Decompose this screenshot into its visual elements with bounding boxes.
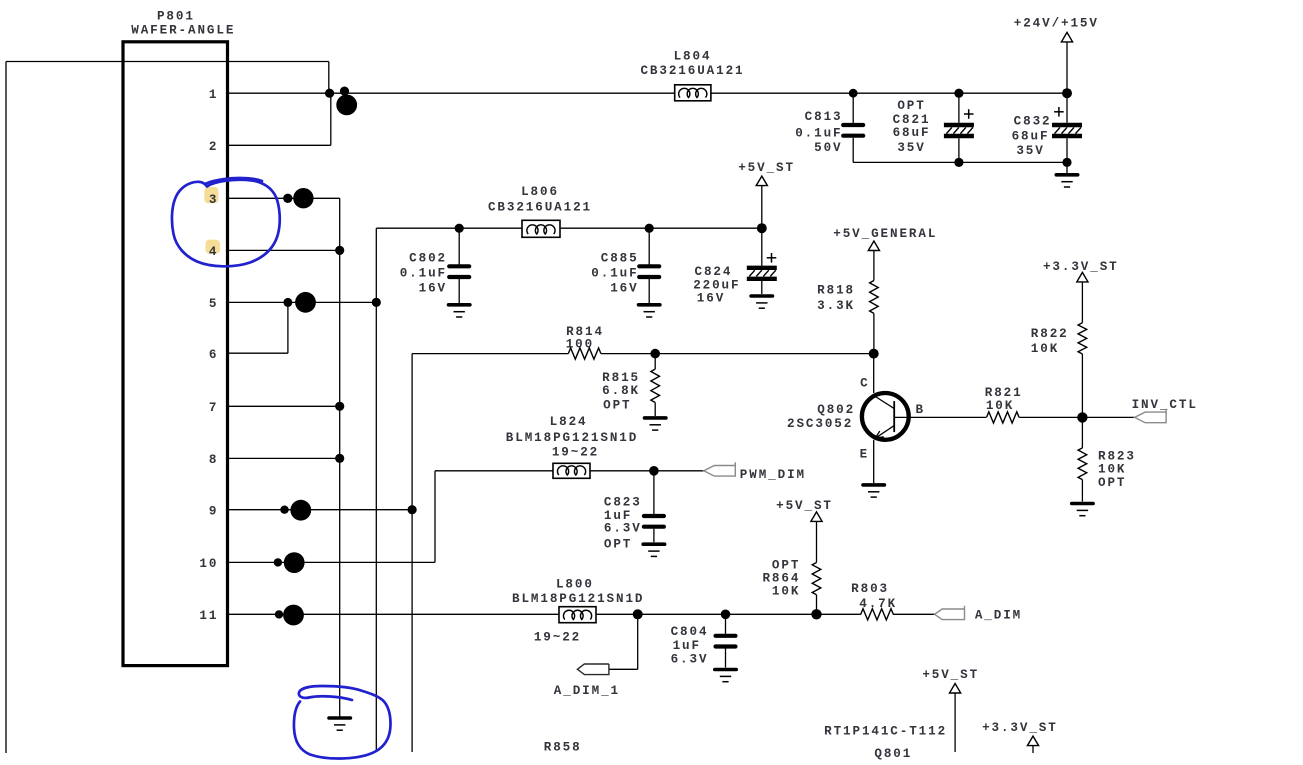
wire top rail from left edge <box>6 61 329 63</box>
svg-text:68uF: 68uF <box>893 126 931 140</box>
ground below C823 <box>643 542 664 546</box>
wire pin 8 stub <box>228 457 340 459</box>
svg-text:R815: R815 <box>602 371 640 385</box>
junction INV_CTL node <box>1077 412 1087 422</box>
junction C802 <box>455 224 464 233</box>
svg-text:R822: R822 <box>1031 327 1069 341</box>
wire pin 6 up to pin 5 <box>287 302 289 353</box>
svg-text:OPT: OPT <box>604 538 632 552</box>
junction C832 bottom <box>1062 158 1071 167</box>
wire pin 11 to L800 <box>228 613 560 615</box>
capacitor C823 <box>653 471 655 514</box>
svg-text:R823: R823 <box>1098 450 1136 464</box>
svg-text:8: 8 <box>209 453 218 467</box>
junction C804 <box>721 610 731 620</box>
connector P801 body <box>123 42 228 666</box>
annotation blob pin 5 <box>295 292 316 313</box>
resistor R815 <box>654 354 656 370</box>
svg-text:+3.3V_ST: +3.3V_ST <box>982 721 1058 735</box>
svg-text:Q802: Q802 <box>817 403 855 417</box>
wire pin 6 stub <box>228 352 288 354</box>
junction C885 <box>645 224 654 233</box>
svg-text:9: 9 <box>209 504 218 518</box>
svg-text:E: E <box>860 448 869 462</box>
svg-text:16V: 16V <box>610 282 638 296</box>
wire pin 7 stub <box>228 405 340 407</box>
wire R821 to junction <box>1019 416 1134 418</box>
svg-text:R818: R818 <box>817 284 855 298</box>
svg-text:OPT: OPT <box>1098 476 1126 490</box>
net flag PWM_DIM <box>704 462 736 476</box>
wire pin 9 stub <box>228 509 413 511</box>
resistor R814 <box>568 348 601 359</box>
svg-text:11: 11 <box>199 609 218 623</box>
svg-text:R858: R858 <box>544 741 582 755</box>
junction pin 1 <box>325 89 334 98</box>
ground below Q802 emitter <box>863 483 884 487</box>
resistor R864 <box>816 522 818 563</box>
svg-text:4: 4 <box>209 245 218 259</box>
svg-text:B: B <box>915 403 924 417</box>
ground below C804 <box>715 668 736 672</box>
svg-text:C804: C804 <box>671 625 709 639</box>
transistor Q802 <box>862 393 909 440</box>
ground below R815 <box>645 416 666 420</box>
wire pin 5 stub <box>228 301 377 303</box>
junction C813 top <box>849 89 858 98</box>
wire pin 10 up to L824 row <box>434 471 436 563</box>
resistor R803 <box>861 609 894 620</box>
inductor L824 <box>553 463 590 478</box>
inductor L800 <box>559 607 596 623</box>
svg-text:PWM_DIM: PWM_DIM <box>740 468 806 482</box>
resistor R823 <box>1081 417 1083 448</box>
wire L800 to R803 <box>596 613 861 615</box>
resistor R821 <box>987 412 1020 423</box>
wire base to R821 <box>894 416 986 418</box>
svg-text:+5V_ST: +5V_ST <box>922 668 979 682</box>
svg-text:C821: C821 <box>893 113 931 127</box>
svg-text:6.3V: 6.3V <box>671 652 709 666</box>
net flag A_DIM_1 <box>577 664 609 675</box>
junction collector rail <box>869 349 879 359</box>
resistor R818 <box>873 251 875 281</box>
svg-text:+5V_ST: +5V_ST <box>776 499 833 513</box>
junction C821 top <box>954 89 963 98</box>
svg-text:6: 6 <box>209 348 218 362</box>
svg-text:0.1uF: 0.1uF <box>400 267 447 281</box>
annotation dot pin 9 <box>280 506 288 514</box>
annotation dot pin 3 <box>283 194 292 203</box>
ground below C802 <box>449 303 470 307</box>
svg-text:220uF: 220uF <box>693 279 740 293</box>
svg-text:2SC3052: 2SC3052 <box>787 417 853 431</box>
wire L824 to PWM_DIM <box>590 470 704 472</box>
svg-text:CB3216UA121: CB3216UA121 <box>640 64 744 78</box>
highlight pin 3 <box>204 187 218 203</box>
wire +24V symbol down <box>1066 42 1068 93</box>
annotation dot pin 11 <box>275 610 283 618</box>
svg-text:10K: 10K <box>986 399 1014 413</box>
svg-text:L806: L806 <box>521 185 559 199</box>
annotation dot pin 5 <box>283 298 292 307</box>
svg-text:6.3V: 6.3V <box>604 522 642 536</box>
svg-text:C823: C823 <box>604 496 642 510</box>
wire pin 2 stub <box>228 144 331 146</box>
annotation dot pin 10 <box>274 558 282 566</box>
svg-text:L800: L800 <box>556 578 594 592</box>
capacitor C804 <box>725 614 727 634</box>
wire R814 left <box>412 353 568 355</box>
svg-text:19~22: 19~22 <box>552 446 599 460</box>
svg-text:R821: R821 <box>985 386 1023 400</box>
junction pin 4 <box>228 249 340 251</box>
junction pin 9 <box>408 505 417 514</box>
junction pin 8 <box>335 454 344 463</box>
svg-text:35V: 35V <box>1016 144 1044 158</box>
svg-text:10K: 10K <box>1031 342 1059 356</box>
svg-text:C824: C824 <box>695 265 733 279</box>
junction C821 bottom <box>954 158 963 167</box>
svg-text:R864: R864 <box>762 572 800 586</box>
wire L806 rail left <box>376 227 522 229</box>
wire +5V_ST net vertical from L806 rail down <box>375 228 377 752</box>
svg-text:19~22: 19~22 <box>534 630 581 644</box>
svg-text:CB3216UA121: CB3216UA121 <box>488 201 592 215</box>
ground below C832 <box>1056 173 1077 177</box>
wire pin10 row to L824 <box>435 470 553 472</box>
svg-text:L804: L804 <box>674 49 712 63</box>
capacitor C813 <box>852 93 854 123</box>
svg-text:OPT: OPT <box>772 558 800 572</box>
annotation blob pin 9 <box>290 500 311 521</box>
wire ground net vertical (pins 3,4,7,8) <box>339 198 341 716</box>
svg-text:6.8K: 6.8K <box>602 384 640 398</box>
annotation blob pin 10 <box>284 552 305 573</box>
junction C824 / +5V_ST <box>757 223 767 233</box>
capacitor C821 (polarized) <box>964 113 974 115</box>
svg-text:+5V_GENERAL: +5V_GENERAL <box>833 227 937 241</box>
wire rail down to pin 1 <box>328 62 330 94</box>
wire R803 to A_DIM <box>893 613 935 615</box>
svg-text:C813: C813 <box>805 110 843 124</box>
svg-text:BLM18PG121SN1D: BLM18PG121SN1D <box>512 592 644 606</box>
ground below C885 <box>639 303 660 307</box>
svg-text:35V: 35V <box>897 141 925 155</box>
svg-text:BLM18PG121SN1D: BLM18PG121SN1D <box>506 431 638 445</box>
svg-text:1: 1 <box>209 88 218 102</box>
svg-text:C832: C832 <box>1014 115 1052 129</box>
svg-text:R803: R803 <box>851 582 889 596</box>
svg-text:+5V_ST: +5V_ST <box>738 161 795 175</box>
wire pin 3 stub <box>228 197 340 199</box>
inductor L804 <box>675 85 711 101</box>
svg-text:L824: L824 <box>550 415 588 429</box>
wire caps bottom rail <box>853 161 1067 163</box>
junction R815 <box>650 349 660 359</box>
capacitor C824 (polarized) <box>767 257 777 259</box>
capacitor C832 (polarized) <box>1054 111 1064 113</box>
annotation blue circle around ground <box>294 686 391 759</box>
ground below R823 <box>1072 502 1093 506</box>
annotation blob pin 1 <box>336 95 357 116</box>
svg-text:1uF: 1uF <box>673 639 701 653</box>
svg-text:C885: C885 <box>601 252 639 266</box>
svg-text:C: C <box>860 377 869 391</box>
ground below C824 <box>751 294 772 298</box>
svg-text:16V: 16V <box>419 282 447 296</box>
wire to ground below C832 <box>1066 162 1068 173</box>
svg-text:WAFER-ANGLE: WAFER-ANGLE <box>131 23 235 37</box>
wire pin 9 net vertical (to R814 and below) <box>411 354 413 752</box>
svg-text:+24V/+15V: +24V/+15V <box>1014 17 1099 31</box>
svg-text:16V: 16V <box>697 292 725 306</box>
svg-text:50V: 50V <box>814 141 842 155</box>
svg-text:10K: 10K <box>1098 463 1126 477</box>
wire L806 rail right <box>560 227 762 229</box>
svg-text:68uF: 68uF <box>1012 130 1050 144</box>
wire pin 1 to L804 <box>228 92 676 94</box>
ground circled (pins 3,4,7,8 net) <box>329 716 350 720</box>
svg-text:10: 10 <box>199 557 218 571</box>
junction pin 7 <box>335 402 344 411</box>
junction pin 5 <box>372 298 381 307</box>
junction C823 <box>649 466 659 476</box>
svg-text:OPT: OPT <box>897 99 925 113</box>
svg-text:3.3K: 3.3K <box>817 299 855 313</box>
wire pin 2 up to pin 1 <box>330 93 332 145</box>
svg-text:10K: 10K <box>772 585 800 599</box>
resistor R822 <box>1081 282 1083 323</box>
junction A_DIM_1 branch <box>633 609 643 619</box>
wire A_DIM_1 branch <box>637 614 639 669</box>
capacitor C885 <box>648 228 650 264</box>
wire R814 right <box>601 353 874 355</box>
net flag A_DIM <box>935 606 965 620</box>
svg-text:Q801: Q801 <box>874 747 912 760</box>
annotation blue circle around pins 3 and 4 <box>172 180 280 267</box>
junction +24V rail <box>1062 88 1072 98</box>
svg-text:A_DIM: A_DIM <box>975 609 1022 623</box>
svg-text:5: 5 <box>209 297 218 311</box>
wire left edge vertical <box>5 62 7 754</box>
wire pin 10 stub <box>228 561 436 563</box>
inductor L806 <box>522 220 560 237</box>
capacitor C802 <box>458 228 460 264</box>
svg-text:INV_CTL: INV_CTL <box>1132 398 1198 412</box>
annotation blob pin 11 <box>283 605 304 626</box>
svg-text:P801: P801 <box>157 10 195 24</box>
svg-text:A_DIM_1: A_DIM_1 <box>554 684 620 698</box>
svg-text:3: 3 <box>209 193 218 207</box>
svg-text:OPT: OPT <box>603 399 631 413</box>
svg-text:2: 2 <box>209 140 218 154</box>
svg-text:7: 7 <box>209 401 218 415</box>
highlight pin 4 <box>206 240 221 254</box>
annotation dot pin 1 <box>340 87 349 96</box>
svg-text:0.1uF: 0.1uF <box>795 126 842 140</box>
wire emitter to ground <box>873 440 875 483</box>
wire +5V_ST bottom down <box>954 693 956 752</box>
wire L804 to +24V rail <box>711 92 1067 94</box>
wire collector <box>873 354 875 393</box>
svg-text:0.1uF: 0.1uF <box>591 267 638 281</box>
svg-text:C802: C802 <box>409 252 447 266</box>
svg-text:RT1P141C-T112: RT1P141C-T112 <box>824 725 947 739</box>
wire +5V_ST down to rail <box>761 186 763 229</box>
junction R864 <box>811 609 821 619</box>
annotation blob pin 3 <box>293 188 313 208</box>
svg-text:+3.3V_ST: +3.3V_ST <box>1043 260 1119 274</box>
